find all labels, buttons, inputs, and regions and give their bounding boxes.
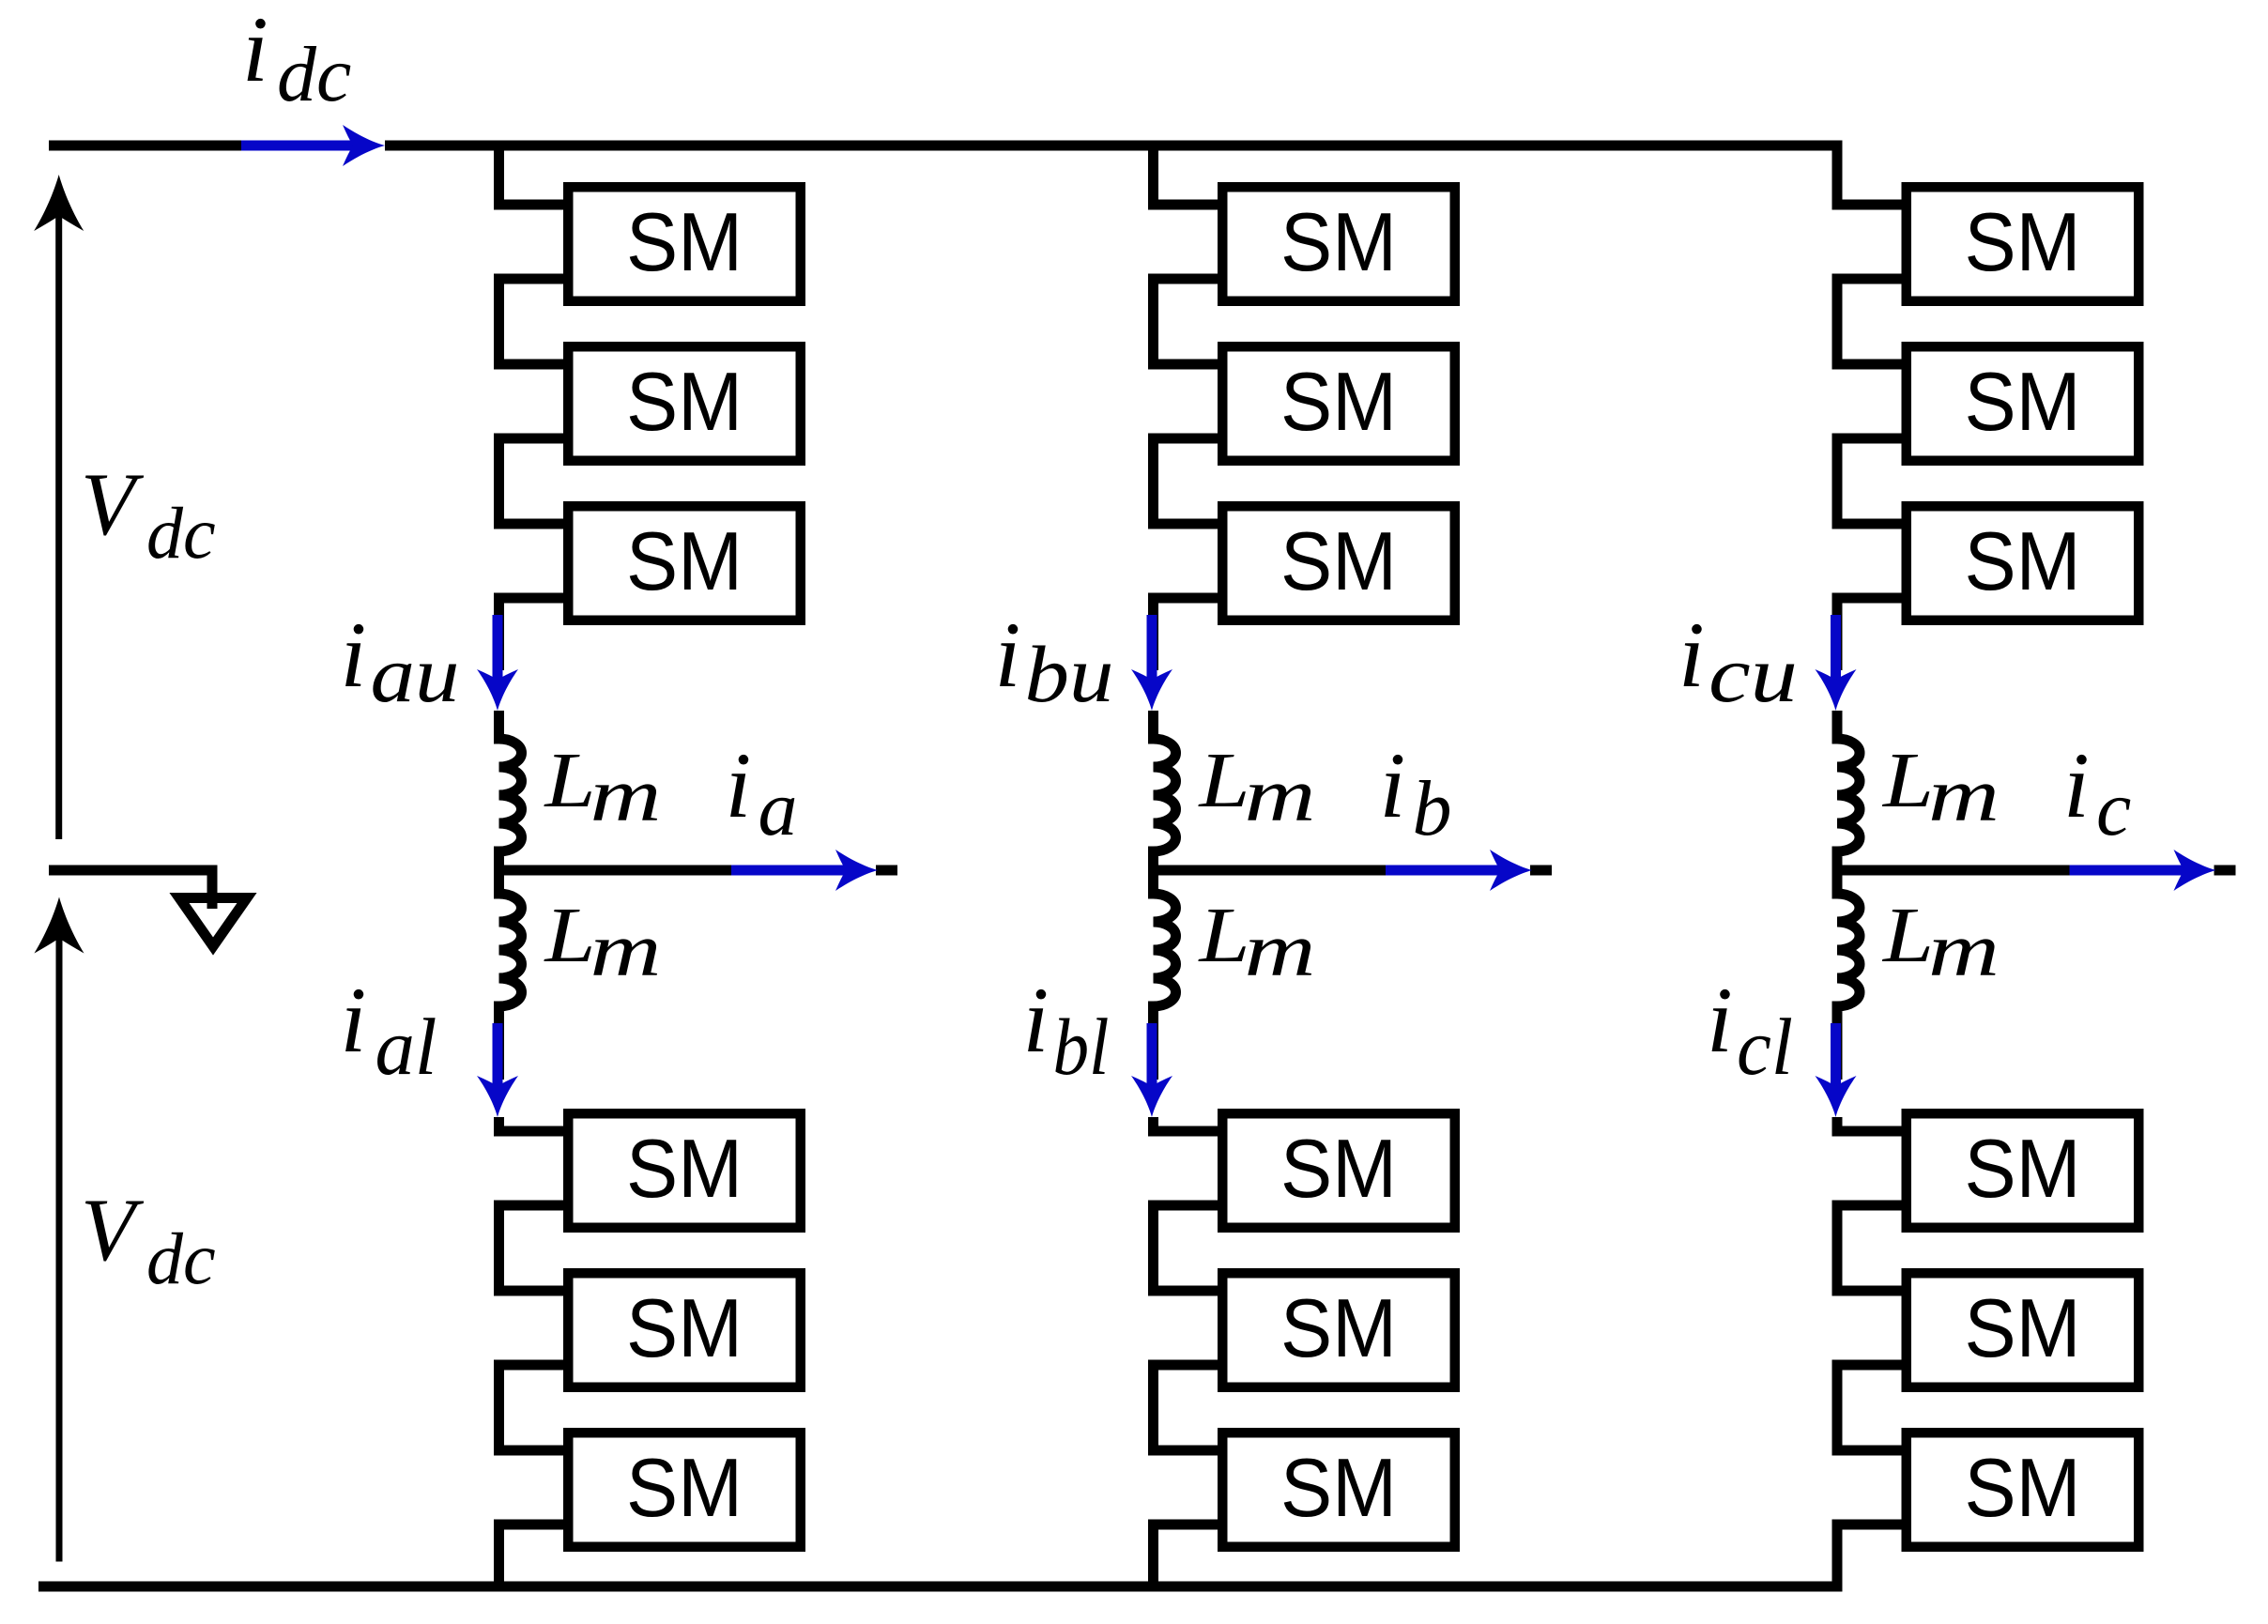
svg-text:i: i [242,0,268,101]
svg-text:i: i [995,603,1021,707]
svg-text:i: i [1678,603,1705,707]
svg-text:V: V [81,454,145,554]
svg-text:L: L [544,892,595,979]
svg-text:L: L [1198,737,1249,824]
svg-text:a: a [759,765,798,852]
svg-text:dc: dc [146,1218,216,1299]
svg-text:dc: dc [146,492,216,574]
svg-text:SM: SM [626,195,743,288]
svg-text:i: i [1707,968,1733,1072]
svg-text:i: i [726,733,752,837]
svg-text:L: L [1882,737,1934,824]
svg-text:SM: SM [1965,195,2081,288]
svg-text:SM: SM [1280,1281,1397,1374]
svg-text:SM: SM [626,1281,743,1374]
svg-text:al: al [375,1002,437,1092]
svg-text:SM: SM [1280,1441,1397,1534]
svg-text:bl: bl [1053,1002,1110,1092]
svg-text:au: au [371,629,460,719]
svg-text:m: m [590,752,662,837]
svg-text:SM: SM [1965,514,2081,607]
svg-text:c: c [2096,765,2131,852]
svg-text:SM: SM [1280,355,1397,448]
svg-text:SM: SM [1965,1122,2081,1215]
svg-text:cu: cu [1709,629,1798,719]
svg-text:m: m [590,907,662,992]
svg-text:m: m [1245,752,1316,837]
svg-text:L: L [544,737,595,824]
svg-text:m: m [1245,907,1316,992]
svg-text:b: b [1413,765,1452,852]
svg-text:SM: SM [1280,1122,1397,1215]
svg-text:SM: SM [1965,1281,2081,1374]
svg-text:bu: bu [1025,629,1114,719]
svg-text:SM: SM [1965,1441,2081,1534]
svg-text:SM: SM [1280,195,1397,288]
svg-text:SM: SM [626,355,743,448]
svg-text:m: m [1928,907,2000,992]
svg-text:i: i [341,968,367,1072]
svg-text:m: m [1928,752,2000,837]
svg-text:L: L [1198,892,1249,979]
svg-text:cl: cl [1737,1002,1793,1092]
svg-text:L: L [1882,892,1934,979]
svg-text:dc: dc [277,31,351,118]
svg-text:i: i [1023,968,1050,1072]
svg-text:SM: SM [1965,355,2081,448]
svg-text:i: i [2063,733,2090,837]
svg-text:i: i [341,603,367,707]
svg-text:V: V [81,1180,145,1279]
svg-text:SM: SM [1280,514,1397,607]
svg-text:SM: SM [626,514,743,607]
svg-text:SM: SM [626,1122,743,1215]
svg-text:SM: SM [626,1441,743,1534]
svg-text:i: i [1380,733,1406,837]
